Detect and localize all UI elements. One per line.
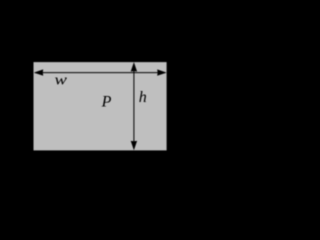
wire: h dimension line bbox=[133, 64, 135, 149]
arrowhead right of w bbox=[157, 69, 166, 75]
rectangle P (gray panel) bbox=[34, 62, 167, 150]
arrowhead top of h bbox=[131, 62, 137, 71]
svg-text:P: P bbox=[101, 93, 112, 110]
svg-text:h: h bbox=[139, 89, 147, 106]
wire: w dimension line bbox=[35, 72, 165, 74]
arrowhead bottom of h bbox=[131, 141, 137, 150]
svg-text:w: w bbox=[55, 73, 67, 89]
arrowhead left of w bbox=[34, 69, 43, 75]
